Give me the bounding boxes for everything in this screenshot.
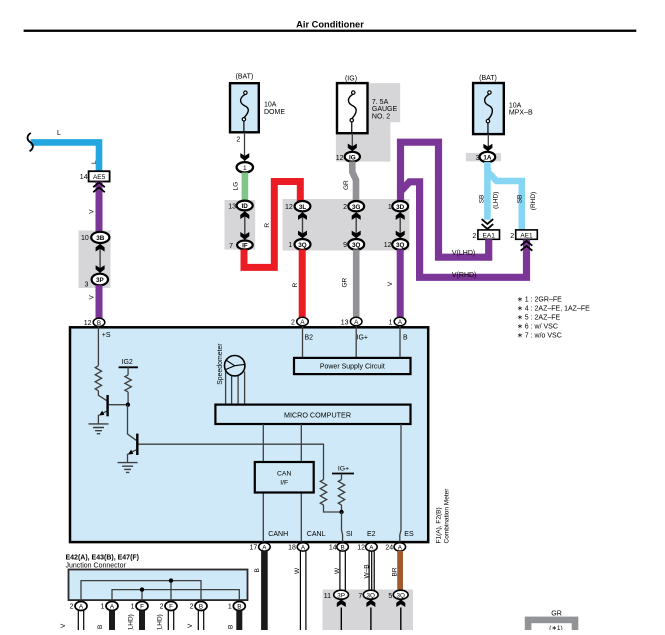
svg-text:+S: +S — [102, 332, 111, 339]
junction pin F 3 — [165, 602, 177, 611]
svg-text:3G: 3G — [352, 204, 361, 211]
svg-text:1: 1 — [389, 319, 393, 326]
junction arrows 3B-3P — [99, 244, 101, 273]
wire below 3Q second — [400, 608, 402, 631]
svg-text:3Q: 3Q — [396, 242, 405, 249]
meter pin A 24 — [394, 543, 406, 551]
svg-text:AE1: AE1 — [520, 232, 533, 239]
arrow below 3Q first — [366, 599, 375, 607]
connector IG — [345, 152, 360, 162]
svg-text:IG2: IG2 — [122, 359, 133, 366]
wire CANH micro computer to pin 17A — [262, 424, 264, 542]
chevron out of AE1 — [521, 241, 533, 251]
svg-text:3Q: 3Q — [366, 592, 375, 599]
svg-text:1: 1 — [288, 242, 292, 249]
svg-text:V: V — [88, 295, 95, 300]
svg-text:10A: 10A — [264, 102, 277, 109]
svg-text:1: 1 — [243, 165, 247, 172]
svg-text:7: 7 — [358, 593, 362, 600]
wire B pin to PSC — [399, 326, 401, 358]
lead wire from fuse F2 — [351, 133, 353, 152]
shield box (*1) — [528, 620, 575, 635]
svg-text:2: 2 — [236, 137, 240, 144]
meter pin A 17 — [259, 543, 271, 551]
svg-text:L: L — [57, 130, 61, 137]
svg-text:I/F: I/F — [280, 480, 288, 487]
transistor Q2 — [136, 434, 138, 455]
svg-text:17: 17 — [250, 545, 258, 552]
svg-text:3L: 3L — [299, 204, 307, 211]
svg-text:(LHD): (LHD) — [493, 192, 500, 209]
micro computer box — [215, 405, 410, 424]
connector 3Q bottom second — [393, 590, 408, 599]
svg-text:B: B — [237, 604, 241, 611]
shade box behind 1A connector — [466, 153, 501, 161]
svg-text:EA1: EA1 — [483, 232, 496, 239]
wire W-B pin 12A to 3Q — [368, 551, 370, 591]
junction arrows 3G-3Q — [355, 212, 357, 238]
svg-text:∗ 6 : w/ VSC: ∗ 6 : w/ VSC — [517, 324, 558, 331]
resistor R4 SI — [338, 480, 344, 506]
connector 3B — [91, 232, 109, 243]
svg-text:GR: GR — [343, 180, 350, 190]
connector 1A — [480, 152, 496, 162]
svg-text:SB: SB — [479, 195, 486, 204]
svg-text:CANL: CANL — [307, 531, 326, 538]
svg-text:12: 12 — [357, 545, 365, 552]
junction arrows 3L-3Q — [302, 212, 304, 238]
svg-text:3Q: 3Q — [298, 242, 307, 249]
meter pin A 2 — [297, 317, 309, 325]
resistor R2 on IG2 — [125, 375, 131, 392]
svg-text:B: B — [254, 568, 261, 572]
wire V (purple) AE1 branch V(RHD) — [402, 182, 527, 277]
svg-text:B: B — [403, 334, 408, 341]
svg-text:2: 2 — [510, 233, 514, 240]
junction pin B 5 — [233, 602, 245, 611]
wire below junction 2F — [167, 611, 169, 631]
wire R2 to node — [127, 392, 129, 405]
wire SB (RHD) branch to AE1 — [488, 168, 522, 230]
chevron into EA1 — [482, 219, 494, 229]
svg-text:SI: SI — [346, 531, 353, 538]
speedometer legs — [226, 372, 245, 405]
svg-text:ID: ID — [242, 203, 249, 210]
svg-text:F: F — [140, 604, 144, 611]
arrow into connector 1A — [483, 144, 492, 152]
svg-text:V(LHD): V(LHD) — [452, 250, 475, 257]
svg-text:(∗1): (∗1) — [549, 625, 562, 630]
resistor R1 on +S — [95, 366, 101, 391]
wire V (purple) 3P to meter pin 12B — [96, 285, 103, 318]
junction pin B 4 — [195, 602, 207, 611]
chevron out of AE5 — [93, 182, 105, 192]
wire GR (gray) 3Q to meter pin 13A — [353, 250, 360, 318]
connector 3Q second — [348, 239, 364, 250]
svg-text:V: V — [387, 281, 394, 286]
junction stub 2F — [170, 581, 172, 602]
svg-text:2: 2 — [343, 204, 347, 211]
connector EA1 box — [478, 230, 500, 239]
shade box behind GAUGE fuse — [336, 83, 400, 162]
node 1 ellipse — [237, 162, 253, 172]
rail IG+ — [332, 473, 354, 475]
svg-text:12: 12 — [336, 155, 344, 162]
svg-text:(RHD): (RHD) — [530, 192, 537, 210]
transistor Q1 — [106, 395, 108, 416]
page break squiggle — [28, 133, 33, 151]
svg-text:13: 13 — [341, 319, 349, 326]
svg-text:14: 14 — [80, 174, 88, 181]
connector 3L — [295, 201, 311, 211]
svg-text:1: 1 — [388, 204, 392, 211]
junction pin A 1 — [106, 602, 118, 611]
connector IF — [237, 241, 253, 250]
svg-text:5: 5 — [388, 593, 392, 600]
svg-text:E42(A), E43(B), E47(F): E42(A), E43(B), E47(F) — [66, 554, 140, 561]
svg-text:12: 12 — [384, 242, 392, 249]
svg-text:IG+: IG+ — [338, 465, 349, 472]
svg-text:3Q: 3Q — [396, 592, 405, 599]
wire R3 R4 junction — [324, 505, 342, 512]
meter pin A 13 — [350, 317, 362, 325]
connector 3P — [92, 274, 108, 286]
wire SI to pin 14B — [342, 512, 343, 542]
svg-text:∗ 5 : 2AZ–FE: ∗ 5 : 2AZ–FE — [517, 315, 561, 322]
wire GR (gray) IG to 3G — [352, 162, 356, 202]
shade box behind 3L/3G/3D connectors — [283, 199, 410, 251]
junction dot 1F — [140, 587, 144, 591]
transistor Q1 collector lead — [98, 391, 106, 401]
svg-text:10: 10 — [81, 235, 89, 242]
wire W (white) below pin 18A — [299, 551, 301, 630]
wire below junction 1F — [139, 611, 145, 631]
svg-text:∗ 7 : w/o VSC: ∗ 7 : w/o VSC — [517, 333, 562, 340]
connector 3Q third — [392, 239, 408, 250]
svg-text:10A: 10A — [509, 102, 522, 109]
svg-text:24: 24 — [385, 545, 393, 552]
svg-text:2: 2 — [160, 604, 164, 611]
meter pin B top — [93, 318, 105, 326]
wire B2 pin to PSC — [302, 326, 304, 358]
svg-text:12: 12 — [84, 320, 92, 327]
svg-text:1: 1 — [228, 604, 232, 611]
wire +S pin to resistor — [97, 327, 99, 366]
svg-text:(BAT): (BAT) — [479, 75, 497, 82]
svg-text:GR: GR — [341, 277, 348, 287]
wire ES micro computer to pin 24A — [400, 424, 401, 542]
svg-text:14: 14 — [329, 545, 337, 552]
wire BR (brown) pin 24A to 3Q — [397, 551, 403, 591]
wire L (cyan) from page break — [31, 142, 99, 171]
connector 3D — [392, 201, 408, 211]
wire node to Q2 base — [128, 405, 137, 441]
connector ID — [237, 201, 253, 211]
fuse F1 10A DOME — [230, 83, 259, 132]
svg-text:2: 2 — [70, 604, 74, 611]
svg-text:(LHD): (LHD) — [156, 614, 163, 630]
speedometer gauge — [225, 356, 245, 376]
svg-text:11: 11 — [324, 593, 331, 600]
svg-text:B: B — [340, 545, 344, 552]
svg-text:MICRO COMPUTER: MICRO COMPUTER — [284, 410, 351, 419]
junction bus top — [81, 581, 201, 602]
shade box behind ID/IF connector — [225, 200, 256, 250]
svg-text:V: V — [60, 623, 67, 628]
wire Q2 collector to SI resistor — [139, 444, 324, 479]
wire SB (LHD) 1A to EA1 — [484, 162, 491, 220]
junction dot SI — [339, 510, 343, 514]
svg-text:V: V — [88, 209, 95, 214]
connector AE5 box — [89, 171, 110, 181]
wire Q1 emitter to ground — [97, 415, 99, 424]
ground G2 — [118, 463, 138, 473]
meter pin B 14 — [337, 543, 349, 551]
svg-text:∗ 4 : 2AZ–FE, 1AZ–FE: ∗ 4 : 2AZ–FE, 1AZ–FE — [517, 306, 590, 313]
svg-text:E2: E2 — [367, 531, 376, 538]
wire below 3P — [340, 608, 342, 631]
svg-text:3P: 3P — [96, 277, 104, 284]
svg-text:W–B: W–B — [364, 564, 371, 578]
fuse F3 10A MPX-B — [473, 83, 504, 134]
wire V below junction 2A — [77, 611, 79, 631]
svg-text:GR: GR — [551, 611, 562, 618]
svg-text:NO. 2: NO. 2 — [372, 113, 390, 120]
svg-text:Air Conditioner: Air Conditioner — [296, 20, 364, 30]
shade box behind 3B/3P connector — [79, 231, 111, 289]
svg-text:B: B — [228, 625, 235, 629]
svg-text:3B: 3B — [96, 235, 105, 242]
svg-text:13: 13 — [228, 203, 236, 210]
wire R (red) IF to 3L — [244, 182, 300, 268]
svg-text:(BAT): (BAT) — [236, 74, 254, 81]
junction dot base node — [126, 403, 130, 407]
meter pin A 18 — [297, 543, 309, 551]
junction stub 1F — [141, 590, 143, 602]
svg-text:12: 12 — [285, 204, 293, 211]
svg-text:V(RHD): V(RHD) — [452, 272, 477, 279]
connector 3P bottom — [334, 590, 349, 599]
svg-text:Speedometer: Speedometer — [217, 343, 224, 385]
svg-text:LG: LG — [232, 182, 239, 191]
wire R (red) 3Q to meter pin 2A — [299, 250, 306, 318]
wire B below junction 1A — [109, 611, 115, 631]
svg-text:2: 2 — [472, 233, 476, 240]
connector 3Q first — [295, 239, 311, 250]
svg-text:SB: SB — [516, 195, 523, 204]
svg-text:Power Supply Circuit: Power Supply Circuit — [320, 364, 385, 371]
junction dot 2F — [169, 578, 173, 582]
svg-text:3Q: 3Q — [352, 242, 361, 249]
svg-text:B: B — [97, 320, 101, 327]
svg-text:ES: ES — [404, 531, 414, 538]
wire V (purple) AE5 to 3B — [96, 182, 103, 233]
svg-text:F: F — [169, 604, 173, 611]
meter pin A 1 — [394, 317, 406, 325]
svg-text:MPX–B: MPX–B — [509, 110, 533, 117]
svg-text:2: 2 — [291, 319, 295, 326]
svg-text:IG+: IG+ — [357, 334, 368, 341]
combination meter box — [70, 327, 428, 542]
svg-text:B2: B2 — [305, 334, 314, 341]
svg-text:3: 3 — [84, 281, 88, 288]
svg-text:Combination Meter: Combination Meter — [444, 488, 451, 544]
svg-text:1: 1 — [101, 604, 105, 611]
arrow into node 1 — [240, 153, 249, 161]
wire below 3Q first — [370, 608, 372, 631]
header rule — [24, 30, 637, 32]
svg-text:1: 1 — [131, 604, 135, 611]
wire LG (light green) node1 to ID — [242, 173, 249, 202]
junction pin A 0 — [75, 602, 87, 611]
junction connector box — [69, 570, 248, 601]
power supply circuit box — [294, 358, 411, 374]
svg-text:CAN: CAN — [277, 470, 291, 477]
svg-text:L: L — [91, 160, 98, 164]
svg-text:B: B — [199, 604, 203, 611]
svg-text:R: R — [292, 283, 299, 288]
svg-text:R: R — [264, 223, 271, 228]
resistor R3 SI — [320, 480, 326, 506]
svg-text:B: B — [97, 625, 104, 629]
svg-text:F1(A), F2(B): F1(A), F2(B) — [436, 507, 443, 543]
junction arrows ID-IF — [244, 211, 246, 239]
svg-text:GAUGE: GAUGE — [372, 106, 398, 113]
svg-text:CANH: CANH — [268, 531, 288, 538]
CAN I/F box — [255, 462, 314, 493]
svg-text:W: W — [334, 567, 341, 574]
svg-text:BR: BR — [391, 567, 398, 576]
svg-text:3D: 3D — [396, 204, 405, 211]
svg-text:9: 9 — [343, 242, 347, 249]
svg-text:(IG): (IG) — [345, 76, 357, 83]
junction pin F 2 — [136, 602, 148, 611]
wire V below junction 2B — [197, 611, 199, 631]
rail IG2 — [119, 366, 138, 368]
wire IG2 rail to resistor — [127, 367, 129, 375]
svg-text:1A: 1A — [483, 155, 492, 162]
svg-text:2: 2 — [190, 604, 194, 611]
svg-text:18: 18 — [288, 545, 296, 552]
wire V (purple) EA1 to 3D via loop — [401, 142, 489, 257]
lead wire from fuse F3 — [487, 134, 489, 152]
arrow below 3P — [337, 599, 346, 607]
junction arrows 3D-3Q — [399, 212, 401, 238]
svg-text:IF: IF — [242, 243, 248, 250]
svg-text:V: V — [187, 623, 194, 628]
svg-text:W: W — [294, 567, 301, 574]
connector 3Q bottom first — [363, 590, 378, 599]
svg-text:7. 5A: 7. 5A — [372, 99, 389, 106]
wire Q2 emitter to ground — [127, 454, 129, 463]
arrow below 3Q second — [396, 599, 405, 607]
wire B below junction 1B — [236, 611, 242, 631]
meter pin A 12 — [366, 543, 378, 551]
svg-text:(LHD): (LHD) — [128, 614, 135, 630]
wire B (black) below pin 17A — [261, 551, 268, 630]
lead wire from fuse F1 — [244, 132, 246, 162]
svg-text:AE5: AE5 — [93, 174, 106, 181]
svg-text:∗ 1 : 2GR–FE: ∗ 1 : 2GR–FE — [517, 297, 562, 304]
svg-text:7: 7 — [229, 243, 233, 250]
wire IG+ pin to PSC — [355, 326, 357, 358]
connector AE1 box — [516, 230, 538, 239]
wire IG+ rail to R4 — [341, 474, 343, 480]
svg-text:3P: 3P — [337, 592, 345, 599]
arrow into connector IG — [348, 144, 357, 152]
junction bus bottom — [112, 590, 239, 602]
shade box behind 3P/3Q/3Q connectors — [323, 590, 414, 631]
ground G1 — [89, 424, 109, 434]
svg-text:DOME: DOME — [264, 109, 285, 116]
wire CANL micro computer to pin 18A — [300, 424, 302, 542]
connector 3G — [348, 201, 364, 211]
wire W (white) pin 14B to 3P — [339, 551, 341, 591]
wire V (purple) 3Q to meter pin 1A — [397, 250, 404, 318]
svg-text:IG: IG — [349, 154, 356, 161]
fuse F2 7.5A GAUGE NO.2 — [337, 83, 368, 133]
